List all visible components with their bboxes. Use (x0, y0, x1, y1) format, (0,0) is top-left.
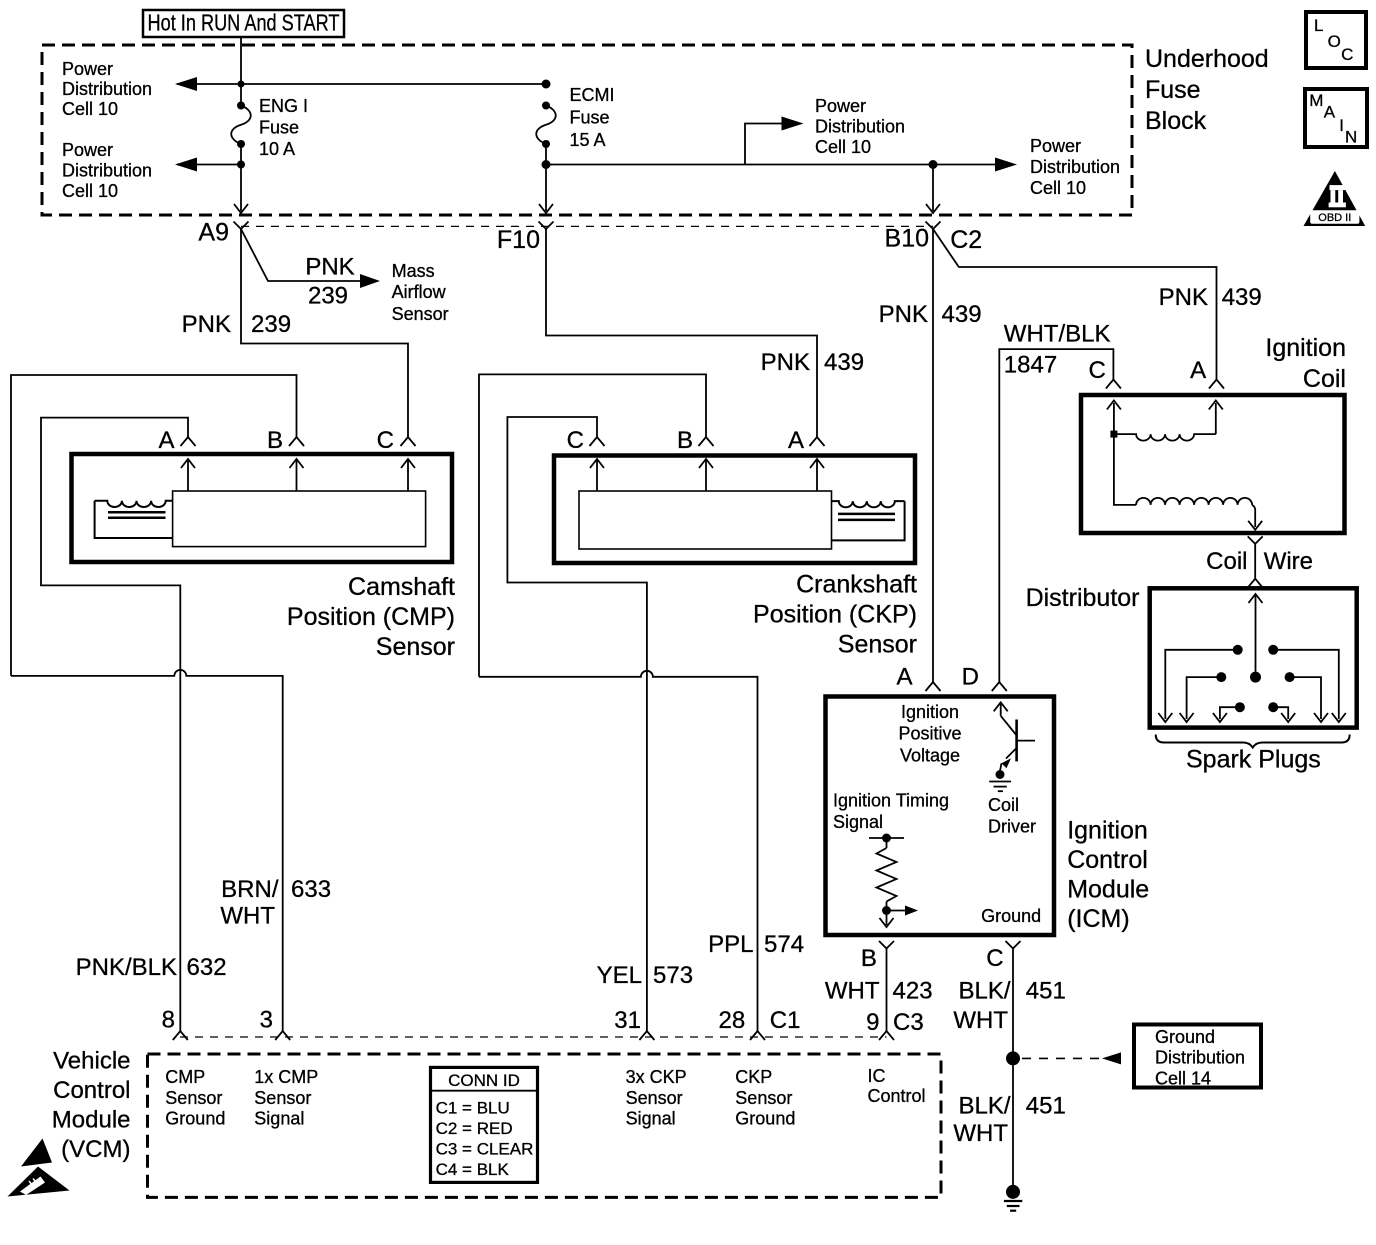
svg-text:PNK: PNK (305, 254, 354, 281)
label CMP Sensor Ground (165, 1067, 225, 1129)
svg-text:(VCM): (VCM) (61, 1136, 130, 1163)
CKP sensor coil element (832, 501, 905, 540)
svg-text:B: B (267, 427, 283, 454)
ICM pin C connector (986, 941, 1020, 972)
svg-text:1x CMP: 1x CMP (254, 1067, 318, 1087)
svg-text:Ground: Ground (165, 1109, 225, 1129)
VCM pin 8 connector (162, 1007, 188, 1041)
svg-text:423: 423 (893, 977, 933, 1004)
svg-text:Ground: Ground (1155, 1027, 1215, 1047)
label PNK 439 (F10 wire) (761, 349, 864, 376)
label Mass Airflow Sensor (392, 261, 449, 324)
svg-text:Cell 10: Cell 10 (62, 181, 118, 201)
svg-text:Distributor: Distributor (1026, 584, 1140, 612)
wire BRN/WHT 633 horizontal with hop over PNK/BLK wire (11, 670, 283, 1031)
svg-text:Sensor: Sensor (626, 1088, 683, 1108)
OBD II icon triangle (1304, 171, 1366, 226)
svg-text:OBD II: OBD II (1318, 212, 1351, 224)
underhood fuse block dashed enclosure (42, 45, 1132, 215)
label WHT/BLK 1847 (1004, 320, 1111, 378)
svg-text:Cell 10: Cell 10 (1030, 178, 1086, 198)
wire CMP pin B loop (to BRN/WHT 633) (11, 375, 297, 676)
svg-text:A: A (1190, 357, 1206, 384)
connector F10 (497, 222, 554, 255)
coil output connector below box (1248, 536, 1263, 544)
label Ignition Timing Signal (833, 791, 949, 833)
svg-text:Cell 10: Cell 10 (62, 99, 118, 119)
svg-text:ENG I: ENG I (259, 96, 308, 116)
ESD sensitive symbol (8, 1139, 70, 1197)
svg-text:Block: Block (1145, 107, 1207, 135)
label 1x CMP Sensor Signal (254, 1067, 318, 1129)
svg-text:239: 239 (251, 311, 291, 338)
label Ignition Coil (1265, 334, 1346, 393)
svg-text:Hot In RUN And START: Hot In RUN And START (148, 10, 340, 36)
CKP pin B arrow inside box (699, 459, 713, 491)
label Power Distribution Cell 10 (middle) (815, 96, 905, 157)
svg-text:Fuse: Fuse (259, 118, 299, 138)
CONN ID table (431, 1067, 538, 1182)
svg-text:Spark Plugs: Spark Plugs (1186, 745, 1321, 773)
label PNK 239 (main wire) (182, 311, 291, 338)
svg-text:451: 451 (1026, 1093, 1066, 1120)
svg-text:I: I (1339, 116, 1344, 135)
svg-text:Sensor: Sensor (254, 1088, 311, 1108)
svg-text:3: 3 (260, 1007, 273, 1034)
svg-text:Fuse: Fuse (570, 108, 610, 128)
svg-text:BLK/: BLK/ (958, 1093, 1010, 1120)
svg-text:Signal: Signal (833, 812, 883, 832)
ignition coil pin C connector (1088, 357, 1120, 389)
svg-text:WHT: WHT (953, 1007, 1008, 1034)
distributor rotor arrow (1249, 594, 1263, 683)
wire WHT 423 from ICM pin B to VCM pin 9 (886, 949, 888, 1032)
svg-text:A9: A9 (198, 219, 229, 247)
label PNK/BLK 632 (76, 954, 227, 981)
svg-text:Position (CMP): Position (CMP) (287, 603, 455, 631)
svg-text:Voltage: Voltage (900, 745, 960, 765)
svg-text:PNK: PNK (879, 301, 928, 328)
svg-text:F10: F10 (497, 226, 540, 254)
wire PNK 439 from B10 down to ICM pin A (932, 229, 934, 682)
CMP pin B arrow inside box (290, 459, 304, 491)
ICM pin D connector (962, 664, 1007, 692)
svg-text:Ignition Timing: Ignition Timing (833, 791, 949, 811)
svg-text:D: D (962, 664, 979, 691)
coil primary winding (1107, 401, 1223, 441)
label CKP Sensor Ground (735, 1067, 795, 1129)
svg-text:C: C (986, 945, 1003, 972)
CMP pin C arrow inside box (401, 459, 415, 491)
label Coil Wire (1206, 548, 1313, 575)
label BRN/WHT 633 (220, 876, 331, 930)
ground distribution cell 14 box (1134, 1025, 1261, 1089)
svg-text:Cell 14: Cell 14 (1155, 1068, 1211, 1088)
CKP pin A arrow inside box (810, 459, 824, 491)
LOC icon box (1306, 12, 1366, 68)
wire PPL 574 horizontal with hop over YEL wire (479, 671, 758, 1031)
svg-text:632: 632 (187, 954, 227, 981)
svg-text:Sensor: Sensor (165, 1088, 222, 1108)
svg-text:A: A (158, 427, 174, 454)
ignition coil pin A connector (1190, 357, 1224, 389)
svg-text:Signal: Signal (626, 1109, 676, 1129)
wire PNK 239 from A9 down (241, 229, 408, 437)
ignition coil box (1081, 395, 1345, 533)
svg-text:IC: IC (868, 1066, 886, 1086)
svg-text:M: M (1309, 91, 1323, 110)
svg-text:B10: B10 (885, 224, 929, 252)
label IC Control (868, 1066, 926, 1106)
svg-text:A: A (896, 664, 912, 691)
CMP pin A arrow inside box (181, 459, 195, 491)
wire WHT/BLK 1847 from ICM pin D up to coil pin C (999, 349, 1113, 682)
svg-text:PNK: PNK (761, 349, 810, 376)
label BLK/WHT 451 (lower) (953, 1093, 1066, 1148)
svg-text:B: B (861, 945, 877, 972)
Hot In RUN And START box (143, 10, 344, 38)
svg-text:CKP: CKP (735, 1067, 772, 1087)
wire CMP pin A loop (to PNK/BLK 632) (41, 418, 188, 1031)
CMP sensor coil element (95, 501, 173, 538)
svg-text:WHT: WHT (953, 1120, 1008, 1147)
CMP pin A connector (158, 427, 195, 454)
svg-text:439: 439 (824, 349, 864, 376)
svg-text:PNK/BLK: PNK/BLK (76, 954, 177, 981)
svg-text:Position (CKP): Position (CKP) (753, 601, 917, 629)
svg-text:Driver: Driver (988, 817, 1036, 837)
label PPL 574 (708, 931, 804, 958)
svg-text:PNK: PNK (182, 311, 231, 338)
dashed wire to ground distribution cell 14 (1022, 1052, 1121, 1064)
VCM pin 31 connector (614, 1007, 654, 1040)
svg-text:239: 239 (308, 283, 348, 310)
svg-text:28: 28 (718, 1007, 745, 1034)
svg-text:Sensor: Sensor (392, 304, 449, 324)
svg-text:9: 9 (866, 1009, 879, 1036)
wire PNK 439 from F10 to CKP pin A (546, 229, 817, 437)
ground symbol (1004, 1185, 1022, 1211)
svg-text:N: N (1345, 128, 1357, 147)
svg-text:CMP: CMP (165, 1067, 205, 1087)
svg-text:PNK: PNK (1159, 284, 1208, 311)
svg-text:451: 451 (1026, 977, 1066, 1004)
label Ignition Control Module (ICM) (1067, 817, 1149, 934)
svg-text:(ICM): (ICM) (1067, 905, 1129, 933)
svg-text:Airflow: Airflow (392, 282, 447, 302)
ICM box (826, 697, 1055, 936)
transistor coil driver (989, 702, 1035, 791)
svg-text:Signal: Signal (254, 1109, 304, 1129)
label Camshaft Position (CMP) Sensor (287, 573, 455, 661)
svg-text:C4 = BLK: C4 = BLK (436, 1160, 510, 1179)
label Vehicle Control Module (VCM) (52, 1048, 131, 1164)
label BLK/WHT 451 (upper) (953, 977, 1066, 1034)
svg-text:Control: Control (868, 1086, 926, 1106)
svg-text:A: A (1324, 103, 1336, 122)
label 3x CKP Sensor Signal (626, 1067, 687, 1129)
svg-text:10 A: 10 A (259, 139, 295, 159)
coil secondary winding (1114, 434, 1262, 530)
branch diagonal to Mass Airflow arrow (241, 229, 380, 288)
svg-text:3x CKP: 3x CKP (626, 1067, 687, 1087)
VCM pin 28 C1 connector (718, 1007, 800, 1040)
CKP connector body inner rect (579, 491, 832, 549)
svg-text:Ignition: Ignition (901, 702, 959, 722)
svg-text:Distribution: Distribution (1030, 157, 1120, 177)
wire PNK 439 from B10 diagonal to Ignition Coil pin A (933, 229, 1217, 380)
svg-text:31: 31 (614, 1007, 641, 1034)
svg-text:Ground: Ground (981, 906, 1041, 926)
distributor input connector (1248, 579, 1263, 588)
svg-text:L: L (1314, 16, 1323, 35)
svg-text:YEL: YEL (597, 962, 642, 989)
CKP pin C connector (567, 427, 605, 454)
VCM pin 3 connector (260, 1007, 291, 1041)
svg-text:Mass: Mass (392, 261, 435, 281)
svg-text:Sensor: Sensor (735, 1088, 792, 1108)
svg-text:WHT: WHT (220, 903, 275, 930)
svg-text:Wire: Wire (1264, 548, 1313, 575)
svg-text:Coil: Coil (1303, 365, 1346, 393)
svg-text:C2 = RED: C2 = RED (436, 1119, 513, 1138)
distributor box (1150, 588, 1357, 727)
ICM pin A connector (896, 664, 940, 692)
svg-text:BRN/: BRN/ (221, 876, 279, 903)
spark plugs brace (1156, 735, 1350, 748)
svg-text:Distribution: Distribution (62, 79, 152, 99)
svg-text:ECMI: ECMI (570, 85, 615, 105)
wire CKP pin C loop (to YEL 573) (507, 417, 647, 1031)
svg-text:Coil: Coil (988, 795, 1019, 815)
svg-text:O: O (1328, 32, 1341, 51)
svg-text:C3 = CLEAR: C3 = CLEAR (436, 1140, 534, 1159)
svg-text:Underhood: Underhood (1145, 45, 1269, 73)
CMP pin B connector (267, 427, 304, 454)
label PNK 239 (branch) (305, 254, 354, 310)
svg-text:439: 439 (1222, 284, 1262, 311)
svg-text:Crankshaft: Crankshaft (796, 571, 917, 599)
label Power Distribution Cell 10 (top left) (62, 59, 152, 119)
connector separator thin dashed line (bottom) (180, 1036, 887, 1038)
connector B10 / C2 (885, 222, 983, 255)
svg-text:Module: Module (52, 1107, 131, 1134)
resistor ignition timing (869, 834, 918, 928)
svg-text:Sensor: Sensor (838, 631, 917, 659)
label Power Distribution Cell 10 (bottom left) (62, 140, 152, 201)
svg-text:C3: C3 (893, 1009, 924, 1036)
CMP connector body inner rect (173, 491, 426, 547)
svg-text:Control: Control (53, 1077, 130, 1104)
svg-text:633: 633 (291, 876, 331, 903)
branch wire up-right arrow to Power Distribution Cell 10 (745, 117, 804, 165)
VCM pin 9 C3 connector (879, 1031, 894, 1040)
wire coil wire (1254, 544, 1256, 579)
svg-text:Ignition: Ignition (1067, 817, 1148, 845)
svg-text:C: C (1088, 357, 1105, 384)
svg-text:WHT: WHT (825, 977, 880, 1004)
label Crankshaft Position (CKP) Sensor (753, 571, 917, 659)
svg-text:Positive: Positive (898, 724, 961, 744)
label Power Distribution Cell 10 (right) (1030, 136, 1120, 198)
svg-text:Distribution: Distribution (815, 117, 905, 137)
label PNK 439 (coil wire) (1159, 284, 1262, 311)
svg-text:Module: Module (1067, 876, 1149, 904)
svg-text:439: 439 (942, 301, 982, 328)
wire bus at y=164.5 to right with arrow to Power Distribution (546, 158, 1017, 172)
CMP sensor box (72, 454, 453, 562)
wire from ECMI fuse down to F10 (539, 144, 553, 213)
svg-text:Coil: Coil (1206, 548, 1247, 575)
svg-text:Vehicle: Vehicle (53, 1048, 130, 1075)
ICM pin B connector (861, 941, 894, 972)
label ECMI Fuse 15 A (570, 85, 615, 150)
svg-text:Cell 10: Cell 10 (815, 137, 871, 157)
distributor cap terminals and spark plug wires (1158, 645, 1242, 722)
svg-text:Ignition: Ignition (1265, 334, 1346, 362)
svg-text:8: 8 (162, 1007, 175, 1034)
wire CKP pin B loop (to PPL 574) (479, 374, 706, 676)
svg-text:C1: C1 (770, 1007, 801, 1034)
wire from ENG I fuse to A9 with left arrow stub (175, 144, 248, 213)
svg-text:Sensor: Sensor (376, 633, 455, 661)
svg-text:C: C (377, 427, 394, 454)
wire BLK/WHT 451 from ICM pin C to ground (1012, 949, 1014, 1192)
svg-text:573: 573 (653, 962, 693, 989)
label WHT 423 / 9 C3 (825, 977, 933, 1036)
svg-text:Power: Power (815, 96, 866, 116)
svg-text:Camshaft: Camshaft (348, 573, 455, 601)
label Ignition Positive Voltage (898, 702, 961, 765)
label Coil Driver (988, 795, 1036, 837)
CKP pin C arrow inside box (590, 459, 604, 491)
svg-text:Power: Power (62, 59, 113, 79)
label ENG I Fuse 10 A (259, 96, 308, 159)
fuse ECMI 15 A (542, 102, 550, 110)
svg-text:Power: Power (62, 140, 113, 160)
svg-text:574: 574 (764, 931, 804, 958)
svg-text:C: C (567, 427, 584, 454)
svg-text:Distribution: Distribution (62, 161, 152, 181)
svg-text:B: B (677, 427, 693, 454)
svg-text:Control: Control (1067, 846, 1148, 874)
wire bus at y=84 to ECMI fuse with left arrow to Power Distribution (175, 77, 551, 91)
svg-text:Fuse: Fuse (1145, 76, 1201, 104)
svg-text:1847: 1847 (1004, 352, 1057, 379)
CMP pin C connector (377, 427, 416, 454)
svg-text:15 A: 15 A (570, 130, 606, 150)
fuse ENG I 10 A (237, 102, 245, 110)
svg-text:A: A (788, 427, 804, 454)
svg-text:Power: Power (1030, 136, 1081, 156)
wire from Hot box down to ENG I fuse (240, 37, 242, 106)
connector A9 (198, 219, 248, 247)
svg-text:C2: C2 (950, 226, 982, 254)
label YEL 573 (597, 962, 693, 989)
junction to ground distribution (1006, 1051, 1020, 1065)
wire down from bus to B10 (926, 165, 940, 214)
MAIN icon box (1305, 89, 1367, 147)
svg-text:Distribution: Distribution (1155, 1048, 1245, 1068)
connector separator thin dashed line (top) (241, 225, 933, 227)
svg-text:C: C (1341, 45, 1353, 64)
label PNK 439 (B10 wire) (879, 301, 982, 328)
CKP sensor box (554, 456, 915, 564)
svg-text:Ground: Ground (735, 1109, 795, 1129)
svg-text:PPL: PPL (708, 931, 753, 958)
CKP pin B connector (677, 427, 714, 454)
svg-text:WHT/BLK: WHT/BLK (1004, 320, 1111, 347)
VCM dashed box (148, 1054, 942, 1197)
svg-text:CONN ID: CONN ID (448, 1071, 520, 1090)
svg-text:BLK/: BLK/ (958, 977, 1010, 1004)
label Underhood Fuse Block (1145, 45, 1269, 135)
svg-text:C1 = BLU: C1 = BLU (436, 1099, 510, 1118)
CKP pin A connector (788, 427, 825, 454)
